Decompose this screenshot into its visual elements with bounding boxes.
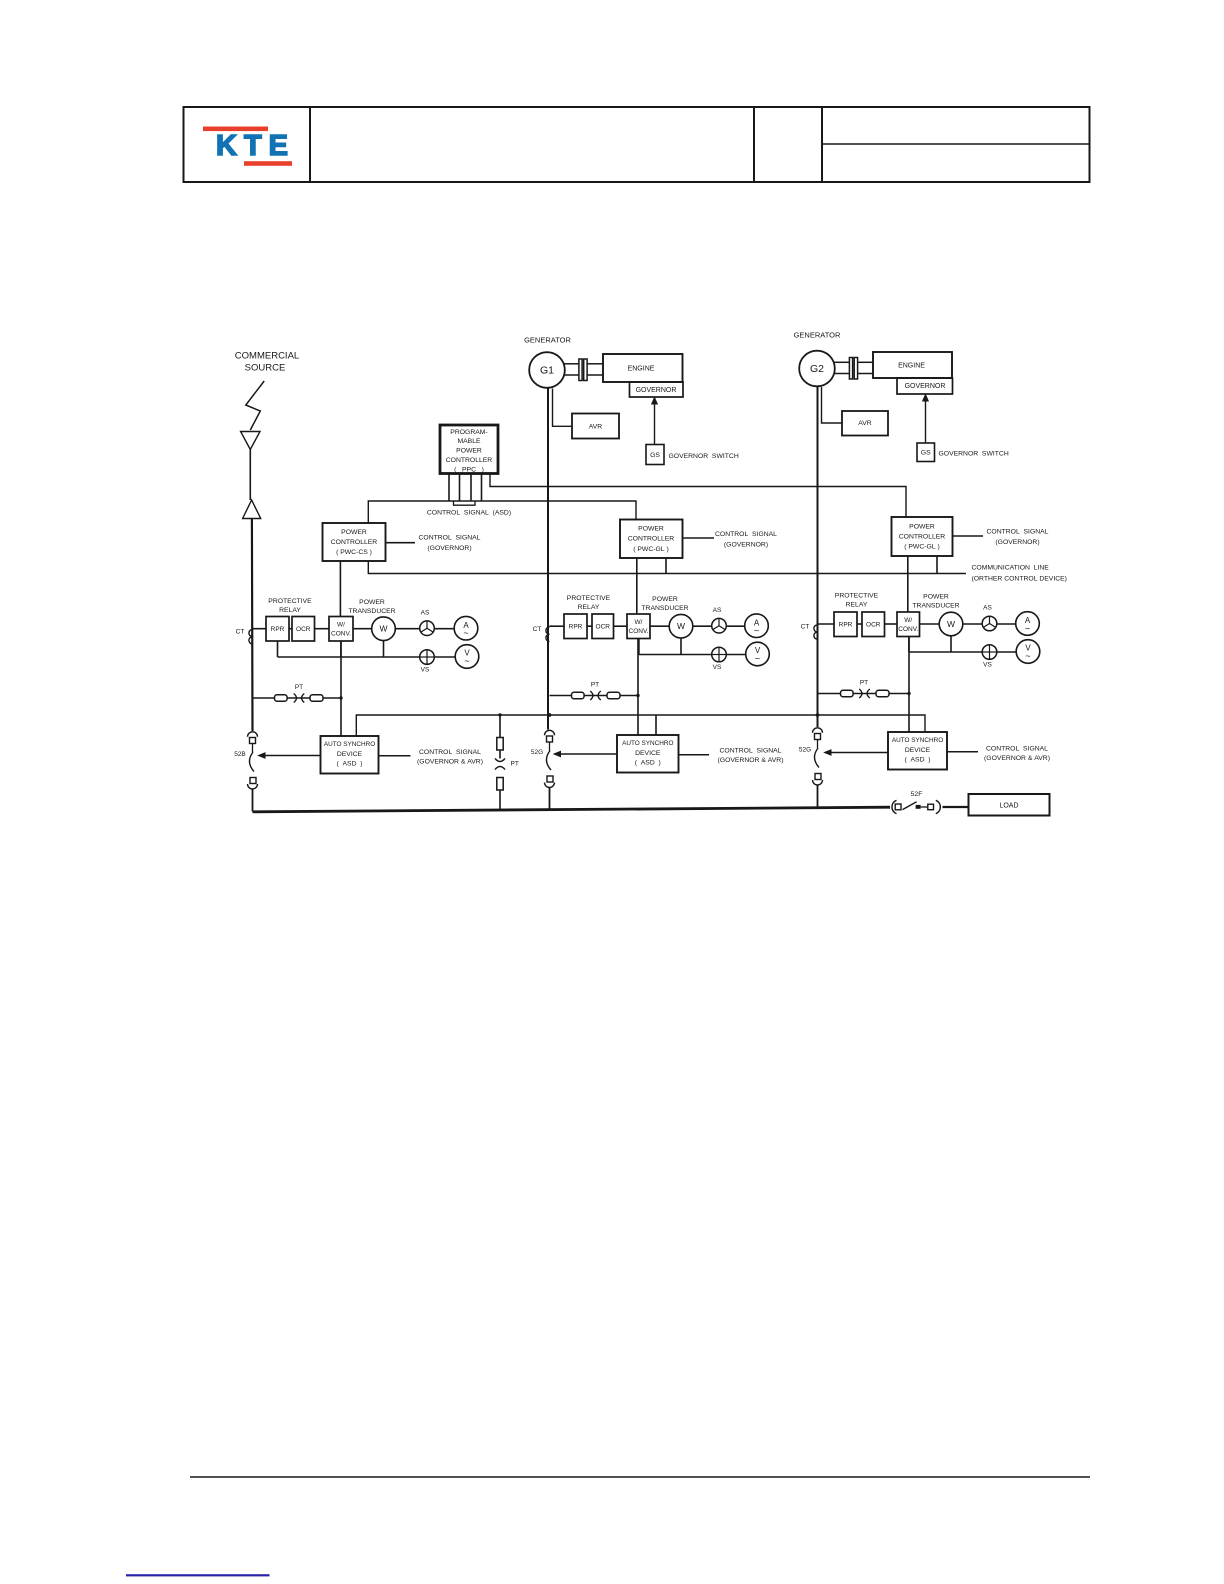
svg-text:(GOVERNOR): (GOVERNOR): [995, 539, 1039, 546]
svg-text:W: W: [677, 621, 685, 631]
svg-text:CONTROLLER: CONTROLLER: [628, 536, 675, 543]
svg-text:PROTECTIVE: PROTECTIVE: [567, 595, 611, 602]
svg-text:~: ~: [464, 656, 469, 666]
svg-text:52G: 52G: [799, 747, 811, 754]
svg-text:GS: GS: [921, 449, 931, 456]
svg-text:CONTROL SIGNAL: CONTROL SIGNAL: [419, 534, 481, 541]
svg-text:RELAY: RELAY: [578, 604, 600, 611]
svg-text:DEVICE: DEVICE: [337, 751, 363, 758]
svg-text:GS: GS: [650, 452, 660, 459]
svg-text:~: ~: [754, 626, 759, 636]
svg-text:RELAY: RELAY: [846, 601, 868, 608]
svg-text:PT: PT: [295, 684, 303, 691]
svg-text:POWER: POWER: [923, 593, 949, 600]
svg-text:LOAD: LOAD: [999, 803, 1018, 810]
svg-text:TRANSDUCER: TRANSDUCER: [348, 608, 395, 615]
svg-text:AVR: AVR: [858, 420, 872, 427]
svg-text:W/: W/: [904, 617, 912, 624]
svg-text:DEVICE: DEVICE: [635, 750, 661, 757]
svg-text:CONTROL SIGNAL: CONTROL SIGNAL: [987, 528, 1049, 535]
svg-text:( ASD ): ( ASD ): [904, 756, 930, 763]
svg-text:SOURCE: SOURCE: [245, 363, 286, 374]
svg-text:PROTECTIVE: PROTECTIVE: [268, 598, 312, 605]
svg-text:OCR: OCR: [866, 621, 881, 628]
svg-text:CONTROL SIGNAL: CONTROL SIGNAL: [720, 747, 782, 754]
svg-text:GOVERNOR SWITCH: GOVERNOR SWITCH: [939, 450, 1009, 457]
svg-text:(GOVERNOR & AVR): (GOVERNOR & AVR): [718, 757, 784, 764]
svg-text:TRANSDUCER: TRANSDUCER: [912, 602, 959, 609]
svg-text:POWER: POWER: [909, 523, 935, 530]
svg-text:AUTO SYNCHRO: AUTO SYNCHRO: [324, 741, 375, 748]
svg-text:GOVERNOR: GOVERNOR: [636, 387, 677, 394]
svg-text:( ASD ): ( ASD ): [336, 760, 362, 767]
svg-text:RELAY: RELAY: [279, 607, 301, 614]
svg-text:GENERATOR: GENERATOR: [524, 335, 571, 344]
svg-text:CONV.: CONV.: [898, 626, 918, 633]
svg-text:(GOVERNOR): (GOVERNOR): [724, 542, 768, 549]
svg-text:(ORTHER CONTROL DEVICE): (ORTHER CONTROL DEVICE): [972, 575, 1067, 582]
svg-text:CT: CT: [533, 626, 542, 633]
svg-text:CONTROLLER: CONTROLLER: [331, 539, 378, 546]
svg-text:PROGRAM-: PROGRAM-: [450, 429, 487, 436]
svg-text:W: W: [947, 619, 955, 629]
svg-text:POWER: POWER: [638, 526, 664, 533]
svg-text:RPR: RPR: [271, 626, 285, 633]
svg-text:OCR: OCR: [296, 626, 311, 633]
svg-text:TRANSDUCER: TRANSDUCER: [641, 605, 688, 612]
svg-text:VS: VS: [713, 664, 722, 671]
svg-text:CONV.: CONV.: [331, 630, 351, 637]
svg-text:CONTROLLER: CONTROLLER: [899, 533, 946, 540]
svg-text:( PWC-CS ): ( PWC-CS ): [336, 549, 372, 556]
svg-text:ENGINE: ENGINE: [628, 366, 655, 373]
svg-text:52F: 52F: [911, 791, 923, 798]
svg-text:PROTECTIVE: PROTECTIVE: [835, 592, 879, 599]
svg-text:RPR: RPR: [839, 621, 853, 628]
svg-text:G1: G1: [540, 364, 554, 376]
svg-text:CONTROL SIGNAL: CONTROL SIGNAL: [715, 531, 777, 538]
svg-text:POWER: POWER: [359, 599, 385, 606]
svg-text:W: W: [379, 623, 387, 633]
svg-text:VS: VS: [983, 662, 992, 669]
svg-text:~: ~: [463, 628, 468, 638]
svg-text:(GOVERNOR & AVR): (GOVERNOR & AVR): [417, 759, 483, 766]
svg-text:AS: AS: [983, 605, 992, 612]
svg-text:52G: 52G: [531, 749, 543, 756]
svg-text:POWER: POWER: [456, 448, 482, 455]
svg-text:CONTROL SIGNAL (ASD): CONTROL SIGNAL (ASD): [427, 509, 511, 516]
svg-text:CT: CT: [236, 628, 245, 635]
svg-text:PT: PT: [860, 680, 868, 687]
svg-text:PT: PT: [591, 682, 599, 689]
svg-text:W/: W/: [635, 619, 643, 626]
svg-text:PT: PT: [511, 761, 519, 768]
svg-text:AVR: AVR: [589, 424, 603, 431]
svg-text:COMMUNICATION LINE: COMMUNICATION LINE: [972, 564, 1050, 571]
svg-text:(GOVERNOR): (GOVERNOR): [427, 545, 471, 552]
svg-text:52B: 52B: [234, 751, 246, 758]
svg-text:POWER: POWER: [341, 529, 367, 536]
svg-text:OCR: OCR: [596, 623, 611, 630]
svg-text:KTE: KTE: [216, 130, 295, 162]
svg-text:RPR: RPR: [569, 623, 583, 630]
svg-text:CONV.: CONV.: [629, 628, 649, 635]
svg-text:G2: G2: [810, 363, 824, 375]
svg-text:CONTROL SIGNAL: CONTROL SIGNAL: [419, 749, 481, 756]
svg-text:CONTROLLER: CONTROLLER: [446, 457, 493, 464]
svg-text:( PWC-GL ): ( PWC-GL ): [904, 544, 940, 551]
svg-text:W/: W/: [337, 621, 345, 628]
svg-text:AS: AS: [713, 607, 722, 614]
svg-text:GOVERNOR SWITCH: GOVERNOR SWITCH: [669, 453, 739, 460]
svg-text:GENERATOR: GENERATOR: [794, 330, 841, 339]
svg-text:POWER: POWER: [652, 596, 678, 603]
svg-text:MABLE: MABLE: [457, 438, 481, 445]
svg-text:ENGINE: ENGINE: [898, 362, 925, 369]
svg-text:AS: AS: [421, 609, 430, 616]
svg-text:VS: VS: [421, 667, 430, 674]
svg-text:~: ~: [1025, 651, 1030, 661]
svg-text:DEVICE: DEVICE: [905, 747, 931, 754]
svg-text:( ASD ): ( ASD ): [635, 759, 661, 766]
svg-text:(GOVERNOR & AVR): (GOVERNOR & AVR): [984, 755, 1050, 762]
svg-text:( PWC-GL ): ( PWC-GL ): [633, 546, 669, 553]
svg-text:( PPC ): ( PPC ): [454, 466, 484, 473]
svg-text:AUTO SYNCHRO: AUTO SYNCHRO: [892, 737, 943, 744]
svg-text:CONTROL SIGNAL: CONTROL SIGNAL: [986, 745, 1048, 752]
svg-text:~: ~: [755, 653, 760, 663]
svg-text:~: ~: [1025, 623, 1030, 633]
svg-text:GOVERNOR: GOVERNOR: [905, 383, 946, 390]
svg-text:COMMERCIAL: COMMERCIAL: [235, 351, 299, 362]
svg-text:AUTO SYNCHRO: AUTO SYNCHRO: [622, 740, 673, 747]
svg-text:CT: CT: [801, 624, 810, 631]
